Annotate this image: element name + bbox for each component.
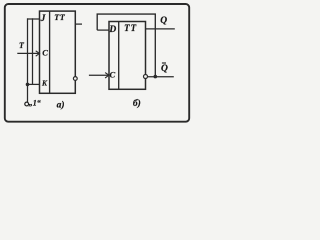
svg-text:TT: TT <box>54 13 66 22</box>
svg-text:C: C <box>110 70 116 80</box>
svg-text:б): б) <box>133 98 141 109</box>
svg-text:D: D <box>108 25 116 35</box>
svg-text:„1“: „1“ <box>29 99 41 108</box>
svg-text:J: J <box>40 14 46 24</box>
svg-text:TT: TT <box>124 23 137 33</box>
svg-text:C: C <box>42 48 48 58</box>
svg-text:Q: Q <box>161 64 168 74</box>
svg-text:Q: Q <box>160 16 167 26</box>
svg-text:а): а) <box>57 100 65 111</box>
